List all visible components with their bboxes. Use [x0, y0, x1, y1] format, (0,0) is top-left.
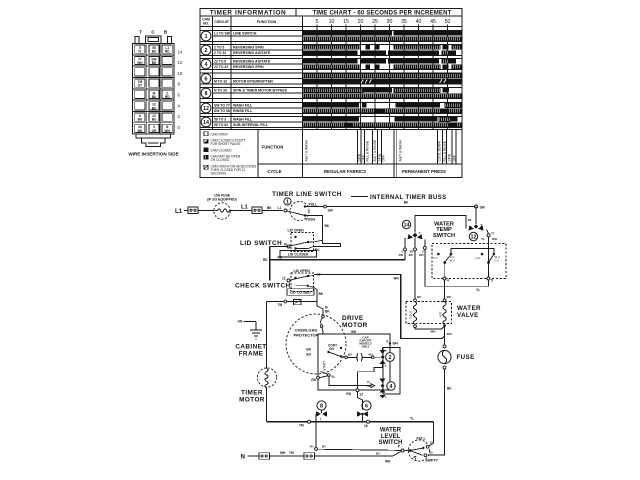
hot valve solenoid: [438, 299, 446, 327]
15A fuse (if so equipped): [207, 194, 237, 220]
timer chart row cam 14: [200, 117, 462, 128]
svg-text:TIMER: TIMER: [241, 390, 263, 397]
timer motor: [239, 368, 276, 404]
svg-text:2: 2: [205, 48, 208, 54]
svg-text:OR CLOSED: OR CLOSED: [211, 158, 230, 162]
svg-text:WH: WH: [393, 342, 399, 346]
svg-text:14: 14: [404, 223, 410, 229]
svg-text:BK: BK: [138, 118, 143, 122]
connector pin cells: [135, 45, 173, 133]
svg-text:BK: BK: [319, 292, 324, 296]
svg-text:EMPTY: EMPTY: [426, 459, 439, 463]
svg-text:BK: BK: [325, 310, 330, 314]
svg-text:1: 1: [286, 200, 289, 206]
svg-text:C-C: C-C: [495, 258, 500, 262]
check switch: [235, 269, 324, 302]
svg-text:10: 10: [329, 19, 335, 25]
svg-text:BU: BU: [369, 352, 373, 356]
svg-text:BK: BK: [447, 387, 452, 391]
svg-text:WH: WH: [385, 459, 391, 463]
svg-text:WATER: WATER: [457, 305, 481, 312]
svg-text:CIRCUIT: CIRCUIT: [214, 20, 229, 24]
svg-text:CAM OPEN: CAM OPEN: [211, 132, 229, 136]
node L1: [175, 208, 188, 215]
svg-text:BY: BY: [376, 452, 380, 456]
svg-text:FUNCTION: FUNCTION: [257, 20, 277, 24]
svg-text:L1: L1: [175, 208, 183, 215]
svg-text:12: 12: [282, 276, 286, 280]
svg-text:BU: BU: [152, 118, 157, 122]
svg-text:MOTOR: MOTOR: [239, 397, 265, 404]
svg-text:35: 35: [401, 19, 407, 25]
svg-text:COLD: COLD: [409, 311, 413, 319]
svg-text:CYCLE: CYCLE: [267, 169, 281, 174]
svg-text:WIRE INSERTION SIDE: WIRE INSERTION SIDE: [128, 152, 178, 157]
svg-text:L1: L1: [278, 206, 282, 210]
svg-text:12: 12: [178, 60, 183, 65]
svg-text:BK: BK: [306, 348, 311, 352]
svg-text:WH: WH: [165, 129, 171, 133]
svg-text:WH: WH: [137, 61, 143, 65]
cam 2: [379, 348, 394, 369]
svg-text:13: 13: [430, 450, 434, 454]
svg-text:PULL: PULL: [309, 203, 318, 207]
svg-text:RINSE FILL: RINSE FILL: [233, 109, 253, 113]
svg-text:5: 5: [316, 19, 319, 25]
wire cam 14 left contact 58 RD: [399, 238, 405, 257]
svg-text:5: 5: [491, 279, 493, 283]
svg-text:T: T: [385, 396, 387, 400]
svg-text:DRIVE: DRIVE: [342, 315, 364, 322]
svg-text:WASH FILL: WASH FILL: [233, 117, 253, 121]
function row phase labels: [262, 130, 457, 178]
svg-text:CABINET: CABINET: [235, 344, 266, 351]
svg-text:58: 58: [468, 218, 472, 222]
svg-text:PUSH: PUSH: [306, 218, 316, 222]
svg-text:SW TO 77: SW TO 77: [214, 103, 230, 107]
svg-text:YL: YL: [410, 416, 414, 420]
svg-text:YL: YL: [138, 50, 142, 54]
svg-text:FULL: FULL: [417, 437, 427, 441]
svg-text:L1: L1: [241, 205, 249, 211]
svg-text:2: 2: [389, 355, 392, 361]
timer chart row cam 12: [200, 103, 462, 114]
cam 4: [379, 379, 395, 400]
svg-text:OFF: OFF: [382, 155, 386, 162]
overload protector: [286, 314, 346, 374]
svg-text:FRAME: FRAME: [239, 351, 264, 358]
svg-text:TIME CHART - 60 SECONDS PER IN: TIME CHART - 60 SECONDS PER INCREMENT: [312, 11, 451, 17]
svg-text:ONLY: ONLY: [362, 344, 370, 348]
capacitor (cap export models only): [341, 335, 380, 361]
connector row labels: [178, 49, 183, 130]
svg-text:BU: BU: [152, 95, 157, 99]
svg-text:TIMER LINE SWITCH: TIMER LINE SWITCH: [272, 191, 342, 198]
svg-text:1: 1: [205, 34, 208, 40]
svg-text:BU: BU: [409, 253, 413, 257]
svg-text:FILL & RINSE: FILL & RINSE: [365, 140, 369, 161]
svg-text:BK: BK: [152, 61, 157, 65]
svg-text:77: 77: [491, 231, 495, 235]
connector column labels T C B: [139, 30, 168, 35]
timer connector block: [133, 36, 175, 147]
svg-text:16: 16: [364, 424, 368, 428]
svg-text:START: START: [323, 361, 327, 371]
svg-text:HOT: HOT: [438, 311, 442, 317]
svg-text:22 TO 32: 22 TO 32: [214, 65, 228, 69]
wire cam 14 right contact 3 to temp switch terminal 5: [419, 240, 489, 293]
svg-text:BK: BK: [325, 224, 330, 228]
svg-text:SWITCH: SWITCH: [433, 233, 455, 239]
svg-text:NO.: NO.: [203, 22, 209, 26]
timer chart row cam 1: [200, 31, 462, 42]
svg-text:50: 50: [445, 19, 451, 25]
timer chart row cam 6: [200, 73, 462, 84]
svg-text:OR: OR: [152, 129, 157, 133]
svg-text:CHECK SWITCH: CHECK SWITCH: [235, 283, 291, 290]
svg-text:8: 8: [205, 91, 208, 97]
svg-text:L1 TO SW: L1 TO SW: [214, 31, 231, 35]
svg-text:H-C: H-C: [476, 256, 481, 260]
timer chart row cam 8: [200, 88, 462, 99]
svg-text:7H: 7H: [310, 445, 314, 449]
wire cam 14 center 58 BU to cold valve: [409, 238, 417, 299]
svg-text:TIMER INFORMATION: TIMER INFORMATION: [210, 10, 286, 17]
svg-text:WATER: WATER: [380, 428, 402, 434]
wire BK to timer line switch: [262, 206, 283, 211]
svg-text:LID CLOSED: LID CLOSED: [290, 291, 311, 295]
svg-text:T: T: [419, 231, 421, 235]
svg-text:(IF SO EQUIPPED): (IF SO EQUIPPED): [207, 198, 237, 202]
svg-text:SUB-INTERVAL FILL: SUB-INTERVAL FILL: [233, 123, 269, 127]
svg-text:SW: SW: [480, 206, 485, 210]
svg-text:TM: TM: [299, 424, 304, 428]
svg-text:LINE SWITCH: LINE SWITCH: [233, 31, 257, 35]
svg-text:W-C: W-C: [450, 258, 455, 262]
wire valves merge WH: [415, 326, 452, 346]
wire fuse to water level switch empty (BK): [428, 369, 453, 455]
svg-text:45: 45: [430, 19, 436, 25]
svg-text:30: 30: [387, 19, 393, 25]
svg-text:WH: WH: [447, 332, 452, 336]
cycle row: [267, 169, 446, 174]
svg-text:4: 4: [205, 62, 208, 68]
svg-text:BU: BU: [348, 353, 352, 357]
svg-text:WH: WH: [351, 330, 357, 334]
svg-text:BU: BU: [417, 295, 421, 299]
svg-text:8: 8: [320, 404, 323, 410]
timer line switch: [272, 191, 342, 222]
svg-text:SECONDS: SECONDS: [211, 172, 227, 176]
svg-text:WH: WH: [394, 276, 400, 280]
wire TM line: check switch to timer motor vertical: [267, 300, 318, 307]
svg-text:REGULAR FABRICS: REGULAR FABRICS: [324, 169, 366, 174]
svg-text:RD: RD: [165, 95, 170, 99]
wire L1 to fuse: [198, 210, 214, 212]
svg-text:4: 4: [390, 384, 393, 390]
svg-text:T: T: [385, 364, 387, 368]
svg-text:4: 4: [447, 279, 449, 283]
wire check switch to motor protector M BK: [317, 302, 330, 316]
timer information table frame: [200, 9, 462, 178]
wire cam 8 to water level switch (BY): [310, 414, 402, 456]
svg-text:BU: BU: [306, 353, 311, 357]
svg-text:LID OPEN: LID OPEN: [288, 229, 305, 233]
svg-text:10: 10: [284, 242, 288, 246]
svg-text:AGIT & WASH: AGIT & WASH: [304, 139, 308, 161]
wire 9 WH motor to cam 2: [386, 340, 398, 346]
wire timer motor vertical: [266, 302, 268, 422]
svg-text:YL: YL: [481, 237, 485, 241]
svg-text:25: 25: [372, 19, 378, 25]
svg-text:N TO 34: N TO 34: [214, 88, 227, 92]
svg-text:RD: RD: [311, 378, 316, 382]
wire cam 12 to cam 14 (58): [415, 216, 466, 233]
wire BK timer switch to lid switch: [305, 216, 330, 244]
svg-text:REVERSING AGITATE: REVERSING AGITATE: [233, 51, 271, 55]
svg-text:6: 6: [205, 77, 208, 83]
node N and return line: [241, 451, 402, 464]
chart legend (cam open/closed symbols): [204, 132, 256, 176]
svg-text:MOTOR: MOTOR: [342, 322, 368, 329]
svg-text:12: 12: [367, 384, 371, 388]
svg-text:BU: BU: [152, 50, 157, 54]
svg-text:REVERSING SPIN: REVERSING SPIN: [233, 45, 264, 49]
svg-text:REVERSING SPIN: REVERSING SPIN: [233, 65, 264, 69]
bottom buss wire: [267, 416, 434, 428]
svg-text:PERMANENT PRESS: PERMANENT PRESS: [402, 169, 446, 174]
wire RD to cam 14 contact: [270, 248, 407, 260]
svg-text:12: 12: [203, 106, 209, 112]
svg-text:BU: BU: [315, 248, 320, 252]
svg-text:INTERNAL TIMER BUSS: INTERNAL TIMER BUSS: [370, 195, 447, 201]
wire lid switch to RD vertical: [263, 247, 289, 281]
cold valve solenoid: [409, 299, 417, 328]
svg-text:9: 9: [386, 340, 388, 344]
cam 8: [316, 401, 327, 421]
svg-text:ON: ON: [329, 347, 334, 351]
svg-text:12: 12: [471, 235, 477, 241]
water temp switch: [432, 221, 506, 282]
cam 14: [402, 220, 422, 239]
svg-text:TM: TM: [289, 451, 294, 455]
svg-text:REVERSING AGITATE: REVERSING AGITATE: [233, 59, 271, 63]
svg-text:BU: BU: [152, 106, 157, 110]
svg-text:FUSE: FUSE: [457, 354, 475, 361]
svg-text:15: 15: [343, 19, 349, 25]
svg-text:GN: GN: [238, 320, 243, 324]
wire buss down to cam 12 junction: [475, 207, 477, 225]
svg-text:FUNCTION: FUNCTION: [262, 145, 284, 150]
svg-text:BK: BK: [404, 201, 409, 205]
timer chart row cam 4: [200, 59, 462, 70]
svg-text:WH: WH: [431, 330, 436, 334]
svg-text:T: T: [385, 349, 387, 353]
svg-text:AGIT & RINSE: AGIT & RINSE: [373, 139, 377, 162]
fuse: [438, 345, 475, 369]
connector plug 2: [252, 207, 262, 214]
svg-text:RD: RD: [165, 50, 170, 54]
svg-text:WH: WH: [280, 451, 286, 455]
wire check switch lid open to drive motor area (WH): [314, 275, 445, 339]
svg-text:WH: WH: [492, 237, 497, 241]
svg-text:T: T: [320, 417, 322, 421]
internal timer buss: [305, 195, 485, 213]
water level switch: [379, 422, 439, 463]
svg-text:BY: BY: [322, 445, 326, 449]
svg-text:10: 10: [178, 71, 183, 76]
cam 2 and cam 4 enclosure: [383, 348, 400, 395]
svg-text:T: T: [139, 30, 142, 35]
svg-text:N: N: [241, 454, 246, 461]
svg-text:FOR SHORT PAUSE: FOR SHORT PAUSE: [211, 142, 241, 146]
connector grid: [133, 44, 175, 135]
svg-text:OFF: OFF: [453, 155, 457, 162]
wire YL 12 motor to cam 4: [329, 376, 375, 388]
svg-text:14: 14: [178, 49, 183, 54]
svg-text:12: 12: [360, 392, 364, 396]
svg-text:TM: TM: [278, 303, 283, 307]
cabinet frame ground: [235, 320, 266, 358]
wire cam 12 to water temp switch (77): [481, 230, 497, 263]
svg-text:LID CLOSED: LID CLOSED: [288, 252, 309, 256]
svg-text:58 TO 3: 58 TO 3: [214, 117, 226, 121]
svg-text:SPIN & TIMER MOTOR BYPASS: SPIN & TIMER MOTOR BYPASS: [233, 88, 288, 92]
svg-text:14: 14: [203, 120, 209, 126]
connector plug on L1 lead: [188, 207, 198, 214]
cam 6: [357, 392, 371, 422]
wire fuse to L1 plug 2: [231, 210, 253, 212]
svg-text:40: 40: [416, 19, 422, 25]
svg-text:C-C: C-C: [433, 256, 438, 260]
svg-text:CAM CLOSED: CAM CLOSED: [211, 148, 233, 152]
svg-text:RD: RD: [263, 258, 268, 262]
svg-text:6: 6: [365, 404, 368, 410]
drive motor: [306, 315, 390, 396]
svg-text:RD: RD: [278, 255, 283, 259]
svg-text:MOTOR INTERRUPTER: MOTOR INTERRUPTER: [233, 79, 273, 83]
svg-text:YL: YL: [476, 288, 480, 292]
svg-text:58 TO 62: 58 TO 62: [214, 123, 228, 127]
cam 12: [468, 218, 484, 241]
svg-text:PROTECTOR: PROTECTOR: [293, 333, 318, 338]
svg-text:SPIN: SPIN: [447, 153, 451, 161]
svg-text:BK: BK: [267, 206, 272, 210]
svg-text:YL: YL: [331, 375, 335, 379]
svg-text:WASH FILL: WASH FILL: [233, 103, 253, 107]
svg-text:22 TO 8: 22 TO 8: [214, 59, 226, 63]
svg-text:15: 15: [430, 441, 434, 445]
svg-text:LID OPEN: LID OPEN: [294, 269, 311, 273]
svg-text:RD: RD: [346, 392, 351, 396]
svg-text:M TO 32: M TO 32: [214, 79, 227, 83]
wire cam 2 to motor bottom terminal: [358, 364, 383, 389]
timer chart row cam 2: [200, 45, 462, 56]
svg-text:LEVEL: LEVEL: [381, 434, 401, 440]
svg-text:COOL DOWN: COOL DOWN: [438, 140, 442, 161]
svg-text:AGIT & WASH: AGIT & WASH: [398, 139, 402, 161]
svg-text:BK: BK: [138, 129, 143, 133]
wire temp switch terminal 4 to hot valve: [444, 280, 446, 299]
svg-text:2 TO 32: 2 TO 32: [214, 51, 226, 55]
svg-text:SW: SW: [328, 209, 333, 213]
svg-text:VALVE: VALVE: [457, 312, 479, 319]
water valve: [406, 295, 481, 324]
svg-text:SW TO 58: SW TO 58: [214, 109, 230, 113]
time chart 5-second grid: [317, 27, 448, 130]
svg-text:2 TO 5: 2 TO 5: [214, 45, 224, 49]
lid switch: [240, 229, 341, 258]
svg-text:20: 20: [358, 19, 364, 25]
